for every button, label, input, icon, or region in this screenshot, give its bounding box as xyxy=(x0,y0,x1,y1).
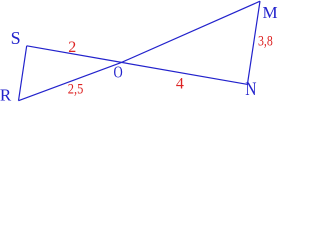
wire segment S-R xyxy=(19,46,27,101)
svg-text:4: 4 xyxy=(176,75,184,92)
wire segment O-N xyxy=(122,62,248,84)
svg-text:M: M xyxy=(263,3,278,22)
wire segment R-O xyxy=(19,62,122,100)
svg-text:2: 2 xyxy=(68,39,76,56)
svg-text:N: N xyxy=(245,79,257,100)
wire segment S-O xyxy=(27,46,122,63)
svg-text:O: O xyxy=(114,64,123,82)
svg-text:S: S xyxy=(11,28,21,48)
svg-text:3,8: 3,8 xyxy=(258,32,273,49)
wire segment M-N xyxy=(247,1,260,85)
wire segment O-M xyxy=(122,1,261,62)
svg-text:2,5: 2,5 xyxy=(68,81,84,97)
svg-text:R: R xyxy=(0,86,12,105)
